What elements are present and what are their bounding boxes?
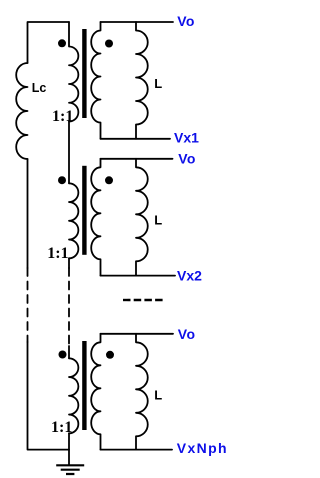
wire: T1 secondary top to node Vo phase 1 bbox=[101, 21, 174, 23]
ground bbox=[56, 465, 84, 474]
inductor Lc winding bbox=[16, 63, 27, 159]
wire: T3 secondary top to node Vo phase N bbox=[101, 333, 174, 335]
wire: left rail bottom to ground junction bbox=[28, 342, 70, 450]
ellipsis dashes for additional phases bbox=[123, 299, 163, 301]
transformer T3 secondary winding bbox=[91, 334, 100, 450]
inductor L phase 1 bbox=[136, 22, 148, 139]
transformer T2 secondary winding bbox=[91, 159, 100, 276]
svg-text:L: L bbox=[154, 76, 162, 91]
wire: left rail solid segment below Lc bbox=[27, 159, 29, 268]
inductor L phase 2 bbox=[136, 159, 148, 276]
svg-text:Vo: Vo bbox=[178, 326, 196, 342]
wire: dashed primary chain continuation T2 to T3 bbox=[68, 268, 70, 346]
polarity dot T2 primary bbox=[58, 176, 66, 184]
transformer T1 secondary winding bbox=[91, 22, 100, 139]
transformer T2 core bbox=[82, 166, 86, 255]
polarity dot T2 secondary bbox=[105, 176, 113, 184]
wire: T1 primary bottom to T2 primary top bbox=[68, 122, 70, 184]
wire: phase 1 bottom to node Vx1 bbox=[101, 138, 171, 140]
wire: left rail top to transformer T1 primary top bbox=[28, 22, 70, 63]
svg-text:1:1: 1:1 bbox=[52, 108, 73, 125]
wire: T2 primary bottom solid stub bbox=[68, 258, 70, 268]
svg-text:VxNph: VxNph bbox=[177, 440, 228, 456]
wire: left rail dashed continuation bbox=[27, 268, 29, 342]
wire: phase N bottom to node VxNph bbox=[101, 449, 173, 451]
transformer T3 primary winding bbox=[69, 358, 78, 433]
svg-text:1:1: 1:1 bbox=[47, 245, 68, 262]
svg-text:Vx1: Vx1 bbox=[174, 130, 199, 146]
wire: T2 secondary top to node Vo phase 2 bbox=[101, 158, 173, 160]
polarity dot T1 primary bbox=[58, 39, 66, 47]
transformer T1 primary winding bbox=[69, 22, 78, 122]
svg-text:Vx2: Vx2 bbox=[177, 268, 202, 284]
transformer T1 core bbox=[82, 29, 86, 118]
svg-text:Vo: Vo bbox=[178, 151, 196, 167]
polarity dot T1 secondary bbox=[105, 40, 113, 48]
wire: T3 primary top solid stub bbox=[68, 346, 70, 358]
transformer T3 core bbox=[82, 341, 86, 430]
svg-text:Vo: Vo bbox=[177, 13, 195, 29]
transformer T2 primary winding bbox=[69, 183, 78, 258]
svg-text:L: L bbox=[154, 388, 162, 403]
svg-text:Lc: Lc bbox=[32, 81, 47, 95]
wire: phase 2 bottom to node Vx2 bbox=[101, 275, 176, 277]
inductor L phase N bbox=[136, 334, 148, 450]
svg-text:L: L bbox=[154, 213, 162, 228]
polarity dot T3 secondary bbox=[106, 351, 114, 359]
wire: T3 primary bottom to ground stem bbox=[68, 433, 70, 464]
polarity dot T3 primary bbox=[59, 351, 67, 359]
